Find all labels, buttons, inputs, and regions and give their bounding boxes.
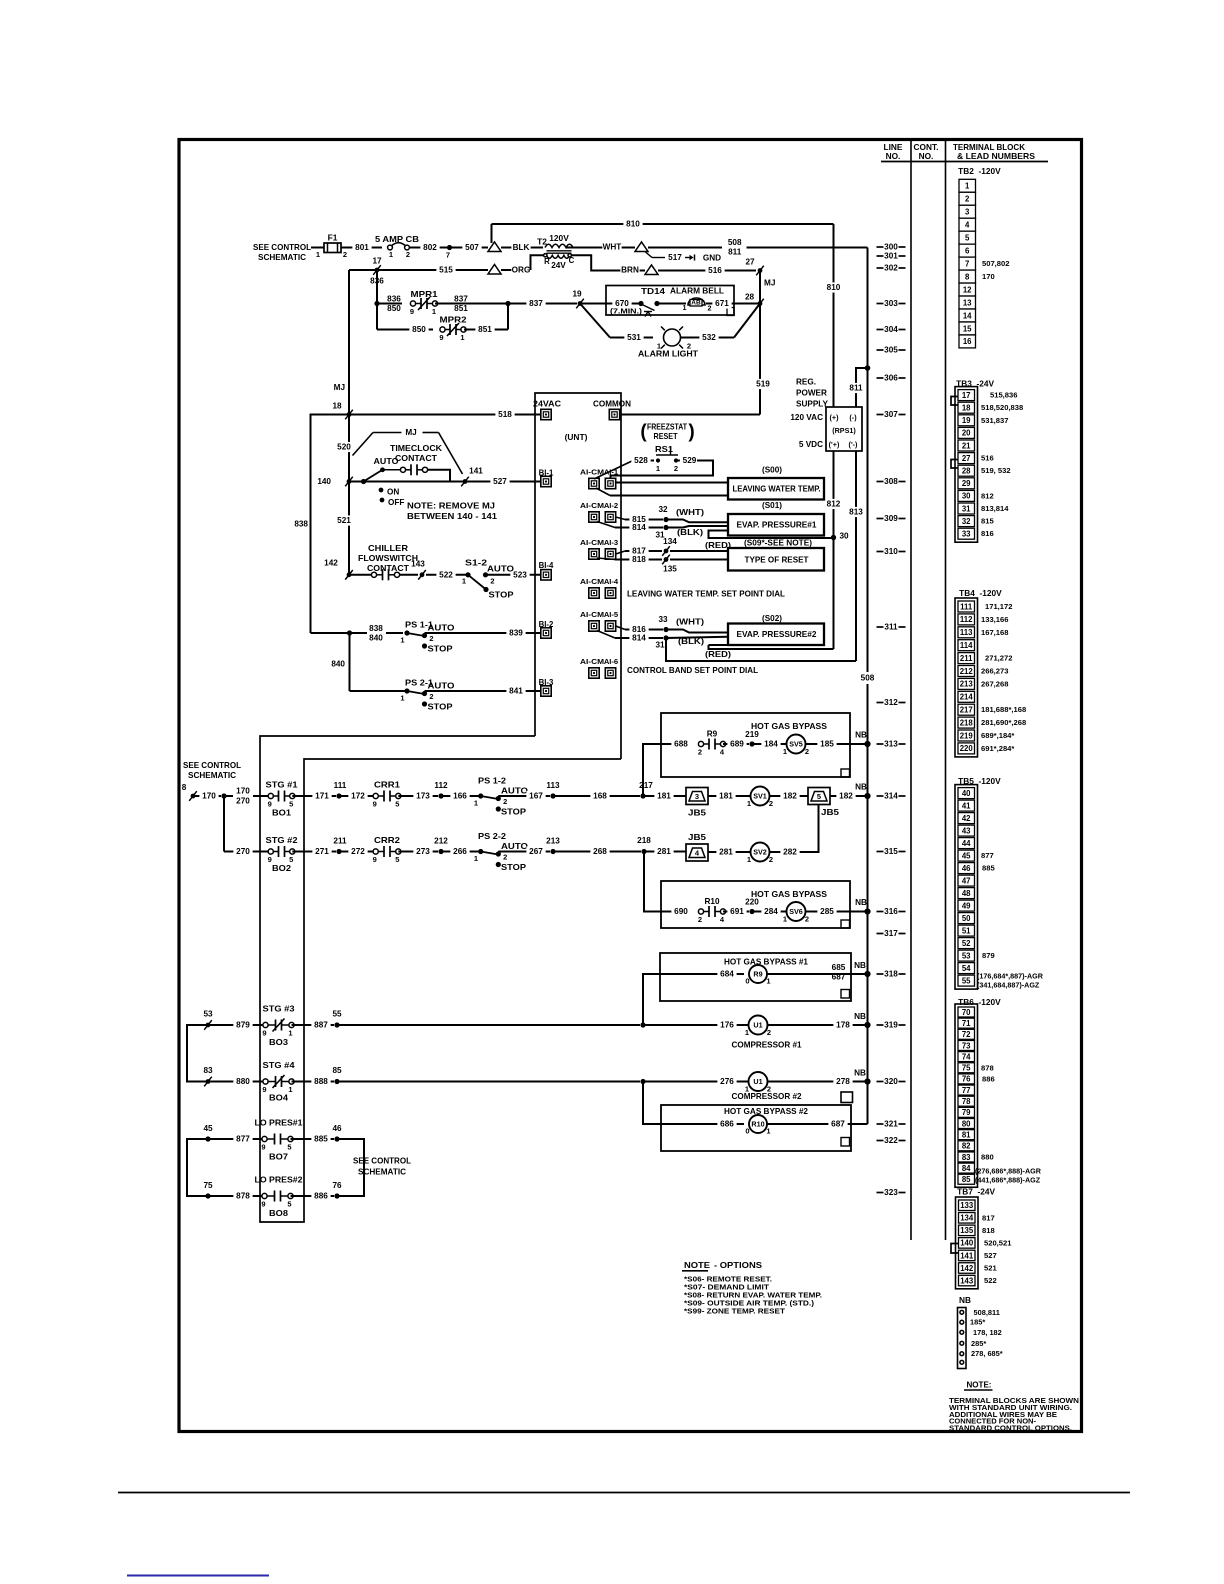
svg-text:2: 2 [503,797,507,806]
svg-text:73: 73 [962,1041,971,1050]
NB node line 320 [864,1078,870,1084]
svg-text:80: 80 [962,1119,971,1128]
wire 527 to BI-1 [490,476,509,486]
svg-text:134: 134 [663,537,677,546]
svg-text:52: 52 [962,939,971,948]
node 32 [663,517,668,522]
svg-text:STOP: STOP [428,645,454,654]
svg-text:271,272: 271,272 [985,654,1012,663]
svg-text:SV1: SV1 [753,792,767,801]
svg-text:EVAP. PRESSURE#1: EVAP. PRESSURE#1 [737,521,817,530]
wire 880 [208,1081,265,1083]
svg-text:9: 9 [268,855,272,864]
junction node 218 [641,849,646,854]
svg-text:143: 143 [411,560,425,569]
svg-text:CHILLER: CHILLER [368,543,408,553]
wire 270 drop [223,796,225,852]
svg-text:814: 814 [632,523,646,532]
junction dot MPR1 out [505,301,510,306]
wire 268 [553,851,641,853]
svg-text:49: 49 [962,901,971,910]
svg-text:517: 517 [668,253,682,262]
svg-text:-24V: -24V [977,379,995,389]
svg-text:1: 1 [288,1085,292,1094]
wire 176 [643,1024,749,1026]
svg-text:879: 879 [982,951,995,960]
wire 837 to node 19 [508,303,577,305]
svg-text:BO8: BO8 [269,1209,288,1218]
timeclock selector arm AUTO ON OFF [361,479,366,484]
svg-text:83: 83 [203,1066,213,1075]
svg-text:218: 218 [637,836,651,845]
svg-text:9: 9 [439,333,443,342]
hot gas bypass #2 box [661,1105,851,1151]
svg-text:MJ: MJ [405,428,416,437]
svg-text:507,802: 507,802 [982,259,1009,268]
wire 531 [610,337,653,339]
svg-text:27: 27 [745,258,755,267]
svg-text:877: 877 [981,851,994,860]
svg-text:SEE CONTROL: SEE CONTROL [353,1156,411,1166]
svg-text:266,273: 266,273 [981,667,1008,676]
svg-text:TD14: TD14 [641,287,666,296]
svg-text:687: 687 [831,1120,845,1129]
svg-text:46: 46 [332,1124,342,1133]
svg-text:2: 2 [698,915,702,924]
svg-text:COMPRESSOR #1: COMPRESSOR #1 [732,1040,802,1050]
svg-text:76: 76 [332,1181,342,1190]
wire to fuse F1 [311,247,324,249]
svg-text:MPR1: MPR1 [411,290,439,299]
wire 811 to power supply [856,368,868,407]
svg-text:9: 9 [261,1143,265,1152]
svg-text:5: 5 [395,855,399,864]
wire AI-1 to leaving water temp sensor [616,482,728,484]
svg-text:140: 140 [960,1239,974,1248]
svg-text:7: 7 [965,259,969,268]
node 220 [749,909,754,914]
junction dot compressor 1 feed [640,1022,645,1027]
svg-text:2: 2 [429,634,433,643]
wire alarm box to node 28 [734,303,760,305]
svg-text:688: 688 [674,740,688,749]
svg-text:5 VDC: 5 VDC [799,440,823,449]
wire 181 to JB5 [643,795,686,797]
svg-text:142: 142 [324,559,338,568]
node 143 [420,572,425,577]
alarm light [664,329,681,346]
svg-text:AI-6: AI-6 [604,657,618,666]
svg-text:1: 1 [766,1127,770,1136]
svg-text:LEAVING WATER TEMP.: LEAVING WATER TEMP. [733,485,821,494]
hot gas bypass box upper [661,713,850,777]
node 140 [347,479,352,484]
junction node 217 [640,793,645,798]
wire 281 to JB5 plug 4 [644,851,686,853]
svg-text:133: 133 [960,1201,974,1210]
svg-text:53: 53 [962,951,971,960]
wire 266 [441,851,481,853]
svg-text:TB2: TB2 [958,166,974,176]
svg-text:AI-CM: AI-CM [580,577,604,586]
svg-text:182: 182 [783,792,797,801]
svg-text:316: 316 [884,907,898,916]
alarm light branch diagonal [580,304,610,338]
node 211 [336,849,341,854]
svg-text:54: 54 [962,964,971,973]
svg-text:BO3: BO3 [269,1038,288,1047]
wire 838 left branch from node 18 [311,415,350,634]
svg-text:16: 16 [963,337,972,346]
svg-text:(S01): (S01) [762,501,782,510]
svg-text:2: 2 [490,576,494,585]
svg-text:1: 1 [783,747,787,756]
node junction 811 branch [865,365,871,371]
svg-text:817: 817 [982,1213,995,1222]
svg-text:HOT GAS BYPASS #2: HOT GAS BYPASS #2 [724,1106,808,1116]
svg-text:28: 28 [745,293,755,302]
svg-text:515: 515 [439,266,453,275]
svg-text:816: 816 [981,529,994,538]
svg-text:STG #4: STG #4 [263,1061,295,1070]
svg-text:304: 304 [884,325,898,334]
svg-text:AI-CM: AI-CM [580,657,604,666]
svg-text:170: 170 [202,792,216,801]
node 30 [831,535,836,540]
relay R9 coil [749,965,767,983]
svg-text:R10: R10 [751,1120,764,1129]
svg-text:300: 300 [884,243,898,252]
junction box JB5 plug 5 [808,788,830,805]
svg-text:(BLK): (BLK) [677,528,703,537]
svg-text:30: 30 [839,532,849,541]
relay R10 coil [749,1115,767,1133]
svg-text:TIMECLOCK: TIMECLOCK [390,443,442,453]
hot gas bypass box lower [661,881,850,928]
svg-text:0: 0 [745,977,749,986]
svg-text:RESET: RESET [654,432,678,441]
svg-text:112: 112 [434,781,448,790]
svg-text:5: 5 [289,800,293,809]
svg-text:5: 5 [817,792,821,801]
svg-text:19: 19 [572,290,582,299]
wire flag ORG [488,265,501,275]
svg-text:(-): (-) [849,413,857,422]
svg-text:170: 170 [982,272,995,281]
svg-text:13: 13 [963,298,972,307]
bracket 46-76 see control schematic [337,1139,364,1196]
svg-text:1: 1 [400,635,404,644]
svg-text:270: 270 [236,847,250,856]
svg-text:220: 220 [960,744,974,753]
svg-text:JB5: JB5 [688,833,707,842]
svg-text:5: 5 [965,233,970,242]
svg-text:219: 219 [745,730,759,739]
node 113 [550,793,555,798]
svg-text:9: 9 [410,307,414,316]
svg-text:AUTO: AUTO [501,787,529,796]
wire flag BLK [488,242,501,252]
svg-text:515,836: 515,836 [990,391,1017,400]
GND stub 517 [646,252,653,258]
svg-text:72: 72 [962,1030,971,1039]
svg-text:267: 267 [529,847,543,856]
junction box JB5 plug 3 [686,788,708,805]
svg-text:2: 2 [965,195,970,204]
svg-text:(+): (+) [830,413,840,422]
wire 529 return to AI-1 [676,460,681,462]
svg-text:184: 184 [764,740,778,749]
svg-text:841: 841 [509,687,523,696]
svg-text:529: 529 [683,456,697,465]
svg-text:SCHEMATIC: SCHEMATIC [358,1167,406,1177]
svg-text:319: 319 [884,1021,898,1030]
svg-text:2: 2 [769,855,773,864]
wire 886 [291,1195,335,1197]
svg-text:178, 182: 178, 182 [973,1328,1002,1337]
svg-text:2: 2 [674,464,678,473]
svg-text:- OPTIONS: - OPTIONS [714,1260,762,1270]
wire 691 [723,911,749,913]
svg-text:R9: R9 [707,730,718,739]
wire 840 drop [349,633,351,691]
svg-text:84: 84 [962,1164,971,1173]
node 219 [749,741,754,746]
svg-text:1: 1 [766,977,770,986]
svg-text:320: 320 [884,1077,898,1086]
svg-text:STOP: STOP [428,703,454,712]
svg-text:1: 1 [965,182,970,191]
svg-text:810: 810 [626,220,640,229]
svg-text:CRR2: CRR2 [374,836,401,845]
svg-text:82: 82 [962,1142,971,1151]
svg-text:55: 55 [962,976,971,985]
svg-text:NB: NB [854,1012,866,1021]
wire 170 [193,795,221,797]
wire 282 up to JB5 plug 5 [815,805,819,853]
wire AI-CM to leaving water temp sensor low side [596,488,610,496]
svg-text:507: 507 [465,243,479,252]
node 112 [438,793,443,798]
svg-text:HOT GAS BYPASS: HOT GAS BYPASS [751,889,827,899]
svg-text:851: 851 [454,304,468,313]
svg-text:171: 171 [315,792,329,801]
svg-text:POWER: POWER [796,389,827,398]
wire transformer to WHT flag [566,247,635,249]
svg-text:71: 71 [962,1019,971,1028]
svg-text:684: 684 [720,970,734,979]
svg-text:31: 31 [655,641,665,650]
svg-text:302: 302 [884,264,898,273]
flowswitch contact [349,574,371,576]
svg-text:516: 516 [708,266,722,275]
svg-text:CONTACT: CONTACT [395,453,438,463]
svg-text:691: 691 [730,907,744,916]
svg-text:AUTO: AUTO [428,682,456,691]
svg-text:BO7: BO7 [269,1153,288,1162]
svg-text:GND: GND [703,254,721,263]
solenoid valve SV5 [787,735,806,754]
svg-text:-120V: -120V [980,588,1003,598]
svg-text:SUPPLY: SUPPLY [796,400,829,409]
svg-text:NB: NB [854,961,866,970]
wire 276 [643,1081,749,1083]
svg-text:1: 1 [288,1029,292,1038]
svg-text:(441,686*,888)-AGZ: (441,686*,888)-AGZ [975,1175,1041,1184]
power supply RPS1 [826,407,862,451]
svg-text:5: 5 [287,1200,291,1209]
svg-text:5: 5 [289,855,293,864]
svg-text:212: 212 [434,837,448,846]
svg-text:76: 76 [962,1075,971,1084]
svg-text:AI-4: AI-4 [604,577,619,586]
svg-text:839: 839 [509,629,523,638]
svg-text:879: 879 [236,1021,250,1030]
svg-text:('-): ('-) [849,440,858,449]
svg-text:321: 321 [884,1120,898,1129]
svg-text:75: 75 [203,1181,213,1190]
svg-text:REG.: REG. [796,378,816,387]
svg-text:8: 8 [965,272,970,281]
svg-text:2: 2 [429,692,433,701]
NB node line 316 [864,908,870,914]
svg-text:TB4: TB4 [959,588,975,598]
svg-text:TYPE OF RESET: TYPE OF RESET [745,556,809,565]
wire 689 [723,743,749,745]
svg-text:2: 2 [805,915,809,924]
svg-text:42: 42 [962,814,971,823]
svg-text:167: 167 [529,792,543,801]
wire 166 [441,795,481,797]
svg-text:2: 2 [767,1028,771,1037]
svg-text:178: 178 [836,1021,850,1030]
svg-text:508: 508 [728,238,742,247]
svg-text:211: 211 [333,837,347,846]
page footer rule [118,1492,1130,1494]
svg-text:NB: NB [854,1069,866,1078]
svg-text:BRN: BRN [621,266,639,275]
svg-text:309: 309 [884,514,898,523]
svg-text:2: 2 [406,250,410,259]
svg-text:167,168: 167,168 [981,628,1008,637]
svg-text:689*,184*: 689*,184* [981,731,1014,740]
svg-text:33: 33 [658,615,668,624]
wire 802 [410,247,448,249]
wire to compressor 1 [337,1024,640,1026]
svg-text:1: 1 [745,1028,749,1037]
svg-text:1: 1 [316,250,320,259]
svg-text:STG #2: STG #2 [266,836,298,845]
svg-text:ORG: ORG [512,266,531,275]
svg-text:PS 1-2: PS 1-2 [478,777,506,786]
svg-text:79: 79 [962,1108,971,1117]
svg-text:508,811: 508,811 [974,1308,1000,1317]
solenoid valve SV1 [751,787,770,806]
svg-text:*S99- ZONE TEMP. RESET: *S99- ZONE TEMP. RESET [684,1307,785,1316]
wire 813 from RPS1 (-) [855,451,857,661]
svg-text:691*,284*: 691*,284* [981,744,1014,753]
wire 523 to BI-4 [486,574,542,576]
svg-text:181,688*,168: 181,688*,168 [981,705,1026,714]
svg-text:278: 278 [836,1077,850,1086]
svg-text:9: 9 [262,1029,266,1038]
svg-text:306: 306 [884,374,898,383]
wire node 218 down to hot gas bypass lower [644,852,661,912]
MJ jumper label over timeclock [373,432,402,434]
svg-text:1: 1 [656,464,660,473]
svg-text:(276,686*,888)-AGR: (276,686*,888)-AGR [975,1166,1042,1175]
wire 284 [752,911,787,913]
svg-text:120V: 120V [549,233,569,243]
svg-text:-120V: -120V [979,166,1002,176]
svg-text:41: 41 [962,801,971,810]
wire 272 [339,851,374,853]
svg-text:516: 516 [981,454,994,463]
svg-text:(S09*-SEE NOTE): (S09*-SEE NOTE) [744,539,812,548]
wire compressor 2 feed to hot gas bypass #2 [643,1082,661,1125]
svg-text:AUTO: AUTO [428,624,456,633]
svg-text:166: 166 [453,792,467,801]
svg-text:1: 1 [747,799,751,808]
wire 817 [616,551,625,554]
svg-text:282: 282 [783,848,797,857]
svg-text:813: 813 [849,508,863,517]
svg-text:185: 185 [820,740,834,749]
svg-text:7: 7 [446,251,450,260]
svg-text:133,166: 133,166 [981,615,1008,624]
svg-text:TB6: TB6 [958,997,974,1007]
svg-text:111: 111 [334,781,347,790]
wire 814 black lead AI-5 [597,631,615,639]
svg-text:310: 310 [884,547,898,556]
wire 528 from AI-CM [594,461,633,480]
wire 273 [398,851,438,853]
svg-text:17: 17 [372,257,382,266]
svg-text:28: 28 [962,467,971,476]
svg-text:STANDARD CONTROL OPTIONS.: STANDARD CONTROL OPTIONS. [949,1424,1072,1433]
compressor U1 #2 [749,1072,768,1091]
svg-text:WHT: WHT [603,243,622,252]
svg-text:508: 508 [861,674,875,683]
svg-text:44: 44 [962,839,971,848]
wire transformer C to BRN [572,255,646,270]
svg-text:885: 885 [314,1135,328,1144]
svg-text:135: 135 [663,565,677,574]
timeclock contact [400,467,405,472]
svg-text:135: 135 [960,1226,974,1235]
solenoid valve SV2 [751,843,770,862]
svg-text:880: 880 [981,1152,994,1161]
svg-text:211: 211 [960,654,973,663]
svg-text:(7.MIN.): (7.MIN.) [610,307,643,316]
svg-text:1: 1 [389,250,393,259]
bracket 45-75 [187,1139,208,1196]
wire 519 common drop [759,304,761,415]
svg-text:285*: 285* [971,1339,986,1348]
svg-text:173: 173 [416,792,430,801]
svg-text:AI-3: AI-3 [604,538,618,547]
svg-text:181: 181 [719,792,733,801]
svg-text:285: 285 [820,907,834,916]
svg-text:NO.: NO. [886,151,901,161]
NB node line 319 [864,1022,870,1028]
schematic border frame [179,140,1082,1432]
svg-text:811: 811 [728,247,742,256]
svg-text:268: 268 [593,847,607,856]
svg-text:317: 317 [884,929,898,938]
TB3 jumper bracket 17-18 [951,397,958,406]
svg-text:-120V: -120V [979,776,1002,786]
